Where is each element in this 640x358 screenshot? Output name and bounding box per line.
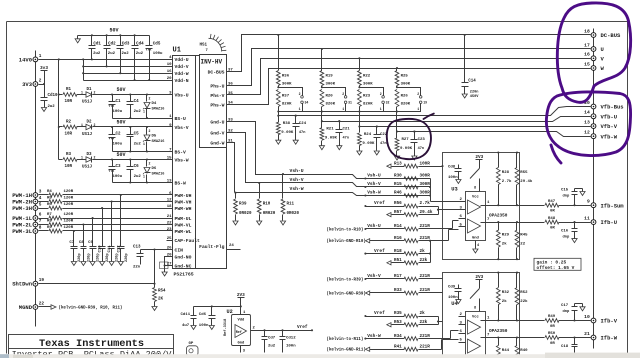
resistor R3 10R	[59, 153, 78, 169]
resistor R57 29.4k	[387, 210, 433, 217]
svg-text:DC-BUS: DC-BUS	[208, 69, 225, 75]
svg-text:300K: 300K	[401, 83, 411, 87]
svg-text:120R: 120R	[64, 190, 74, 194]
svg-text:12: 12	[584, 130, 590, 136]
svg-text:300K: 300K	[326, 83, 336, 87]
svg-text:2: 2	[94, 123, 96, 127]
svg-text:R10: R10	[263, 203, 271, 207]
svg-text:R44: R44	[502, 349, 510, 353]
svg-text:2: 2	[342, 92, 344, 96]
U1 pin 1 BS-U	[167, 115, 186, 122]
annotation purple tail stroke	[551, 145, 561, 163]
resistor R49 0R	[520, 315, 591, 329]
ground	[359, 148, 361, 151]
svg-text:2u2: 2u2	[48, 105, 56, 109]
svg-text:dnp: dnp	[563, 194, 571, 199]
wire Vsh-V net	[260, 183, 431, 187]
resistor R29 2k	[496, 221, 509, 260]
svg-text:300R: 300R	[420, 174, 431, 179]
svg-text:R25: R25	[401, 75, 409, 79]
svg-text:R21: R21	[326, 128, 334, 132]
svg-text:U: U	[601, 46, 604, 53]
wire PWM filter tap	[111, 202, 113, 247]
svg-text:Gnd: Gnd	[472, 236, 480, 241]
connector pin 1 14V0	[19, 54, 42, 64]
ground (Cd10)	[44, 105, 46, 108]
connector pin 2 3V3	[22, 78, 42, 88]
svg-text:R9: R9	[47, 226, 52, 230]
svg-text:C24: C24	[299, 122, 307, 126]
svg-text:20: 20	[167, 253, 172, 257]
svg-text:BS-U: BS-U	[175, 116, 186, 122]
capacitor C13 22n	[133, 246, 144, 270]
svg-text:R46: R46	[394, 191, 402, 196]
svg-text:Vsh-U: Vsh-U	[290, 168, 304, 174]
svg-text:2u2: 2u2	[108, 52, 116, 56]
svg-text:0R: 0R	[550, 342, 555, 346]
svg-text:D3: D3	[87, 153, 93, 157]
svg-text:US1J: US1J	[82, 101, 93, 105]
connector pin 11 Ifb-U	[584, 216, 617, 227]
svg-text:Vsh-V: Vsh-V	[367, 273, 381, 279]
svg-text:9: 9	[587, 199, 590, 205]
svg-text:R6: R6	[47, 203, 52, 207]
capacitor C8 220p	[79, 241, 92, 262]
svg-text:PWM-VL: PWM-VL	[175, 222, 192, 228]
svg-text:C4: C4	[134, 100, 140, 104]
svg-text:220p: 220p	[78, 253, 82, 262]
wire Phs-U net	[232, 49, 591, 86]
svg-text:21: 21	[167, 215, 172, 219]
svg-text:221R: 221R	[420, 344, 431, 349]
svg-text:R29: R29	[502, 234, 510, 238]
U1 pin 35 Phs-V	[210, 92, 233, 99]
arrow MGND kelvin	[51, 305, 56, 310]
wire bootstrap bottom	[113, 182, 167, 184]
U1 pin 36 Phs-U	[210, 82, 233, 89]
svg-text:2.7k: 2.7k	[502, 179, 512, 184]
svg-text:17: 17	[584, 42, 590, 48]
U1 pin 21 PWM-UL	[167, 215, 192, 222]
wire ShtDwn net	[39, 283, 155, 285]
annotation dark circle (R27/C23)	[387, 119, 431, 159]
capacitor Cd2	[104, 36, 117, 67]
U1 pin 6 PWM-UH	[167, 192, 192, 199]
U1 pin 7 BS-V	[167, 148, 186, 155]
resistor R47 0R	[520, 200, 591, 214]
ground (R54)	[154, 303, 156, 307]
svg-text:300K: 300K	[282, 83, 292, 87]
svg-text:Cd8: Cd8	[448, 165, 456, 170]
svg-text:Vsh-U: Vsh-U	[367, 173, 381, 179]
capacitor C5 2u2	[127, 127, 142, 152]
wire PWM filter tap	[83, 225, 85, 247]
svg-text:Cd6: Cd6	[199, 312, 207, 317]
svg-text:47n: 47n	[418, 147, 424, 151]
svg-text:R19: R19	[326, 75, 334, 79]
svg-text:Gnd-U: Gnd-U	[210, 119, 224, 125]
svg-text:2u2: 2u2	[136, 52, 144, 56]
resistor R36 300K	[276, 34, 292, 88]
svg-text:0R020: 0R020	[239, 212, 252, 216]
svg-text:16: 16	[167, 70, 172, 74]
U1 pin 34 Phs-W	[210, 101, 233, 108]
svg-text:Vbs-V: Vbs-V	[175, 125, 189, 131]
annotation purple circle (Vfb outputs)	[546, 92, 630, 156]
svg-text:24: 24	[229, 244, 234, 248]
ground	[120, 259, 122, 262]
svg-text:15: 15	[584, 61, 590, 67]
svg-text:2k: 2k	[502, 242, 507, 247]
capacitor C1 100u	[109, 95, 123, 119]
jumper pins (divider tap)	[397, 88, 428, 112]
svg-text:R33: R33	[394, 288, 402, 293]
wire PWM filter tap	[92, 219, 94, 247]
wire R18/R51 bus	[419, 253, 431, 255]
svg-text:10: 10	[167, 63, 172, 67]
svg-text:R40: R40	[520, 349, 528, 353]
svg-text:2: 2	[149, 97, 151, 101]
svg-text:CIN: CIN	[175, 247, 184, 253]
svg-text:18: 18	[167, 205, 172, 209]
U1 pin 12 PWM-VH	[167, 198, 192, 205]
svg-text:D4: D4	[152, 102, 157, 106]
wire R34 to U4 pin6	[419, 338, 451, 340]
resistor R19 300K	[320, 48, 336, 88]
svg-text:300R: 300R	[420, 182, 431, 187]
svg-text:2: 2	[417, 92, 419, 96]
capacitor Cd5	[146, 36, 164, 81]
svg-text:(kelvin-to-R11): (kelvin-to-R11)	[327, 337, 364, 342]
ground	[73, 259, 75, 262]
svg-text:R16: R16	[394, 236, 402, 241]
U1 pin 20 Gnd-NO	[167, 253, 192, 260]
connector pin 16 V	[584, 52, 604, 63]
svg-text:DC-BUS: DC-BUS	[601, 32, 622, 39]
svg-text:R51: R51	[394, 258, 402, 263]
svg-text:R55: R55	[520, 171, 528, 175]
svg-text:PWM-3H: PWM-3H	[12, 205, 32, 212]
resistor R32 2k	[496, 272, 509, 322]
svg-text:C8: C8	[79, 241, 84, 245]
svg-text:19: 19	[39, 278, 45, 283]
U3 pin 4 ground	[473, 241, 480, 254]
U1 pin 4 Vdd-U	[167, 56, 189, 63]
svg-text:R56: R56	[394, 201, 402, 206]
svg-text:R48: R48	[548, 217, 556, 221]
svg-text:R4: R4	[47, 190, 52, 194]
svg-text:OPA2350: OPA2350	[489, 214, 508, 219]
svg-text:23: 23	[167, 228, 172, 232]
resistor R48 0R	[520, 217, 591, 231]
svg-text:1: 1	[143, 142, 145, 146]
svg-text:820K: 820K	[282, 103, 292, 107]
svg-text:31: 31	[348, 101, 352, 105]
svg-text:820K: 820K	[326, 103, 336, 107]
svg-text:(kelvin-GND-R39): (kelvin-GND-R39)	[327, 292, 366, 297]
U1 pin 3 Vbs-U	[167, 91, 189, 98]
svg-text:R30: R30	[394, 174, 402, 179]
svg-text:1: 1	[81, 91, 83, 95]
svg-text:Cd4: Cd4	[136, 41, 144, 46]
svg-text:Cd10: Cd10	[48, 93, 59, 98]
svg-text:(kelvin-to-R39): (kelvin-to-R39)	[327, 278, 364, 283]
wire bootstrap bottom	[113, 151, 167, 153]
U1 pin 20 Vdd-N	[167, 77, 189, 84]
svg-text:22: 22	[167, 221, 172, 225]
resistor R13 100R	[387, 161, 430, 168]
svg-text:220p: 220p	[106, 253, 110, 262]
resistor R33 221R	[327, 288, 431, 296]
heatsink HS1	[200, 34, 227, 53]
svg-text:dnp: dnp	[563, 309, 571, 314]
wire Phs-W net	[232, 69, 591, 105]
svg-text:820K: 820K	[401, 103, 411, 107]
connector strip vertical line	[35, 51, 37, 327]
svg-text:2: 2	[39, 78, 42, 83]
svg-text:10R: 10R	[65, 100, 73, 104]
wire R17 to U4	[419, 278, 443, 280]
title block box	[9, 335, 174, 349]
ground	[376, 148, 378, 151]
capacitor C15	[561, 189, 585, 207]
diode D3 US1J	[77, 153, 167, 170]
shunt resistor R10 0R020	[257, 183, 275, 218]
svg-text:18: 18	[584, 28, 590, 34]
svg-text:2u2: 2u2	[122, 52, 130, 56]
wire Gnd-W to shunt	[232, 143, 235, 193]
svg-text:Vdd-V: Vdd-V	[175, 64, 189, 70]
wire Vfb-Bus net	[279, 107, 591, 116]
power 2V3	[470, 155, 484, 192]
ground (Cd6)	[211, 323, 213, 326]
svg-text:220p: 220p	[125, 253, 129, 262]
svg-text:PWM-UL: PWM-UL	[175, 216, 192, 222]
wire divider jumper rail	[279, 111, 421, 113]
wire Vsh-U net	[283, 175, 431, 179]
svg-text:8: 8	[474, 187, 476, 191]
svg-text:D6: D6	[152, 167, 157, 171]
svg-text:US1J: US1J	[82, 133, 93, 137]
zener diode D6 SMAZ16	[143, 160, 164, 183]
svg-text:2u2: 2u2	[134, 110, 142, 114]
ground	[282, 218, 284, 221]
ground (U1 Gnd pins)	[164, 269, 166, 273]
svg-text:Vref: Vref	[297, 325, 308, 330]
annotation purple circle (DC-BUS/U/V/W outputs)	[557, 3, 630, 102]
capacitor C24 47n	[293, 115, 307, 137]
svg-text:Vbs-U: Vbs-U	[175, 92, 189, 98]
svg-text:Fault-Flg: Fault-Flg	[199, 244, 225, 250]
capacitor Cd4	[132, 36, 145, 81]
op-amp U3 OPA2350	[466, 192, 486, 241]
svg-text:C6: C6	[134, 165, 140, 169]
svg-text:29.4k: 29.4k	[520, 179, 533, 184]
svg-text:R34: R34	[394, 334, 402, 339]
U1 pin 9 Vbs-V	[167, 124, 189, 131]
U1 pin 22 PWM-VL	[167, 221, 192, 228]
svg-text:8: 8	[39, 225, 42, 230]
svg-text:C16: C16	[561, 230, 569, 234]
schematic border frame	[7, 21, 628, 23]
U3 pin 6	[459, 215, 466, 219]
svg-text:0R020: 0R020	[263, 212, 276, 216]
wire Vfb-W net	[397, 132, 591, 137]
ground	[259, 218, 261, 221]
capacitor C11 220p	[108, 245, 120, 262]
svg-text:Vdd-W: Vdd-W	[175, 71, 189, 77]
svg-text:20: 20	[167, 77, 172, 81]
U1 pin 24 Fault-Flg	[199, 244, 240, 250]
svg-text:C7: C7	[69, 241, 74, 245]
jumper pins (divider tap)	[360, 88, 390, 112]
svg-text:INV-HV: INV-HV	[201, 59, 223, 66]
svg-text:220p: 220p	[116, 253, 120, 262]
connector pin 5 PWM-3H	[12, 202, 42, 212]
U1 pin 27 Gnd-NC	[167, 262, 192, 269]
svg-text:C17: C17	[561, 304, 569, 308]
resistor R17 221R	[327, 273, 431, 282]
svg-text:100R: 100R	[420, 161, 431, 166]
svg-text:Vsh-V: Vsh-V	[367, 181, 381, 187]
svg-text:Ref: Ref	[236, 330, 242, 335]
svg-text:100n: 100n	[286, 345, 296, 349]
resistor R14 221R	[327, 223, 431, 232]
svg-text:R11: R11	[287, 203, 295, 207]
U4 output pins	[481, 317, 520, 338]
svg-text:Gnd-V: Gnd-V	[210, 130, 224, 136]
resistor R8 120R	[39, 219, 167, 226]
svg-text:Ifb-W: Ifb-W	[601, 335, 618, 342]
svg-text:C21: C21	[343, 128, 351, 132]
svg-text:R8: R8	[47, 219, 52, 223]
svg-text:Ref-3318: Ref-3318	[223, 319, 228, 336]
jumper pins (divider tap)	[322, 88, 353, 112]
wire Vfb-U net	[322, 117, 591, 122]
svg-text:C23: C23	[418, 138, 426, 142]
capacitor C17	[561, 304, 585, 322]
svg-text:34: 34	[305, 101, 309, 105]
svg-text:Vsh-U: Vsh-U	[367, 223, 381, 229]
op-amp U4 OPA2350	[466, 312, 486, 358]
svg-text:(kelvin-GND-R10): (kelvin-GND-R10)	[327, 239, 366, 244]
svg-text:US1J: US1J	[82, 166, 93, 170]
capacitor C7 220p	[69, 241, 82, 262]
svg-text:Vfb-W: Vfb-W	[601, 133, 618, 140]
svg-text:13: 13	[584, 120, 590, 126]
shunt resistor R11 0R020	[281, 175, 299, 218]
svg-text:220n: 220n	[470, 91, 479, 95]
svg-text:C15: C15	[561, 189, 569, 193]
svg-text:Ifb-V: Ifb-V	[601, 318, 618, 325]
svg-text:7: 7	[39, 219, 42, 224]
svg-text:R7: R7	[47, 213, 52, 217]
U3 pin 5	[459, 223, 466, 227]
svg-text:2u2: 2u2	[268, 345, 276, 349]
resistor R22 300K	[358, 57, 374, 88]
svg-text:dnp: dnp	[563, 235, 571, 240]
svg-text:R37: R37	[282, 95, 290, 99]
voltage reference U2 REF-3318	[223, 309, 251, 346]
svg-text:Vref: Vref	[374, 310, 385, 316]
ground	[458, 297, 460, 300]
connector pin 19 ShtDwn	[12, 278, 44, 288]
svg-text:10R: 10R	[65, 165, 73, 169]
U1 pin 10 Vdd-V	[167, 63, 189, 70]
svg-text:2u2: 2u2	[134, 175, 142, 179]
resistor R23 820K	[358, 90, 374, 113]
resistor R53 22k	[387, 320, 428, 327]
U1 pin 23 PWM-WL	[167, 228, 192, 235]
svg-text:14: 14	[584, 110, 590, 116]
resistor R24 9.09K	[358, 112, 376, 148]
svg-text:9.09K: 9.09K	[325, 137, 338, 141]
svg-text:PWM-VH: PWM-VH	[175, 199, 192, 205]
svg-text:35: 35	[228, 92, 233, 96]
svg-text:2k: 2k	[420, 311, 426, 316]
wire summing bus to U3 pin2	[419, 178, 431, 180]
svg-text:4: 4	[39, 196, 42, 201]
wire Gnd-NO/NC tie	[165, 257, 167, 266]
svg-text:0R: 0R	[550, 210, 555, 214]
svg-text:0R: 0R	[550, 325, 555, 329]
U4 pin 2	[459, 313, 466, 317]
svg-text:R36: R36	[282, 75, 290, 79]
resistor R6 120R	[39, 203, 167, 210]
svg-text:R3: R3	[66, 153, 72, 157]
diode D2 US1J	[77, 121, 167, 138]
svg-text:(kelvin-GND-R11): (kelvin-GND-R11)	[327, 348, 366, 353]
svg-text:R41: R41	[394, 344, 402, 349]
svg-text:Gnd-NC: Gnd-NC	[175, 263, 192, 269]
resistor R2 10R	[59, 121, 78, 137]
capacitor C16	[561, 221, 578, 243]
svg-text:1: 1	[81, 156, 83, 160]
svg-text:Ifb-U: Ifb-U	[601, 219, 618, 226]
capacitor Cd12 100n	[280, 331, 297, 353]
svg-text:450V: 450V	[470, 95, 479, 99]
svg-text:R53: R53	[394, 320, 402, 325]
capacitor C9 220p	[88, 241, 101, 262]
svg-text:C2: C2	[116, 133, 122, 137]
svg-text:15: 15	[167, 156, 172, 160]
svg-text:C5: C5	[134, 133, 140, 137]
resistor R9 120R	[39, 226, 167, 233]
capacitor C3 100u	[109, 160, 123, 183]
U1 pin 16 Vdd-W	[167, 70, 189, 77]
svg-text:50V: 50V	[109, 28, 118, 34]
svg-text:10R: 10R	[65, 133, 73, 137]
svg-text:GP: GP	[189, 342, 194, 346]
connector pin 14 Vfb-U	[584, 110, 617, 121]
wire R35/R53 bus	[419, 316, 439, 318]
resistor R28 2.7k	[496, 151, 512, 206]
U3 output pins	[481, 201, 520, 222]
svg-text:BS-V: BS-V	[175, 149, 186, 155]
svg-text:Vfb-Bus: Vfb-Bus	[601, 104, 624, 111]
svg-text:9.09K: 9.09K	[281, 131, 294, 135]
wire R14 to U3 pin6	[419, 228, 453, 230]
U3 pin 3	[459, 206, 466, 210]
svg-text:Cd11: Cd11	[181, 312, 191, 317]
svg-text:Vfb-V: Vfb-V	[601, 123, 618, 130]
svg-text:CAP-Fault: CAP-Fault	[175, 238, 201, 244]
capacitor C4 2u2	[127, 95, 142, 119]
svg-text:19: 19	[423, 101, 427, 105]
wire Phs-V net	[232, 59, 591, 95]
wire Vref output	[251, 330, 313, 332]
resistor R4 120R	[39, 190, 167, 197]
